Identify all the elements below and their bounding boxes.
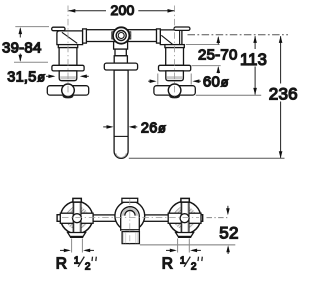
wire 60 dia extension line left xyxy=(157,74,159,85)
node left valve bonnet xyxy=(58,45,77,48)
node left handle hub xyxy=(73,214,82,223)
node center collar xyxy=(114,56,127,63)
svg-text:200: 200 xyxy=(110,2,134,18)
node 52 bottom arrow xyxy=(227,247,229,254)
wire 113 dimension line xyxy=(254,36,256,94)
wire left elbow miter diagonal xyxy=(62,32,77,43)
wire spout aerator joint line xyxy=(114,135,128,137)
node 26 dia right arrow xyxy=(131,126,138,128)
node left R half arrows xyxy=(60,249,69,251)
node 236 bottom arrowhead xyxy=(279,151,283,158)
node lower tube shading xyxy=(124,232,138,243)
wire spout bottom extension line xyxy=(129,157,285,159)
wire bottom center vertical centerline xyxy=(129,199,131,246)
svg-text:60ø: 60ø xyxy=(203,73,229,90)
wire right lever stem xyxy=(179,30,181,44)
wire pipe axis centerline right xyxy=(188,34,289,36)
wire dimension 200 line right segment xyxy=(138,10,174,12)
node left valve flange xyxy=(52,65,84,71)
node right valve elbow xyxy=(160,30,182,45)
wire 39-84 top extension line xyxy=(15,26,49,28)
wire 60 dia extension line right xyxy=(190,74,192,85)
node right handle vertical arm xyxy=(181,202,189,234)
node bottom spout lower tube xyxy=(122,232,139,244)
node right cross handle circle xyxy=(168,201,200,233)
wire left base bottom bold edge xyxy=(70,236,83,238)
node 236 top arrowhead xyxy=(279,36,283,43)
wire right base bottom bold edge xyxy=(178,236,191,238)
node center boss side tabs xyxy=(112,32,114,39)
wire dimension 200 line left segment xyxy=(69,10,175,12)
node right handle hub xyxy=(168,84,181,97)
wire 25-70 extension line upper xyxy=(186,44,220,46)
node right handle bar xyxy=(154,86,195,95)
node 39-84 up arrow xyxy=(19,29,21,61)
node right handle top cap xyxy=(181,198,189,202)
node bottom center body circle xyxy=(115,201,145,231)
node right neck shading xyxy=(167,76,183,79)
node left handle vertical arm xyxy=(73,202,81,234)
svg-text:236: 236 xyxy=(269,84,298,103)
node right handle horizontal arm xyxy=(168,213,201,223)
node bottom center top tab xyxy=(122,198,138,202)
svg-text:26ø: 26ø xyxy=(141,120,166,136)
wire left valve centerline xyxy=(67,6,69,98)
wire spout tip inner arc xyxy=(116,153,126,157)
node left elbow pipe collar xyxy=(83,29,87,43)
svg-text:31,5ø: 31,5ø xyxy=(7,70,45,86)
node left handle dome hatch shading xyxy=(66,206,89,229)
wire left R half extension lines xyxy=(71,239,73,253)
node 26 dia left arrow xyxy=(103,126,111,128)
node right handle lower arm xyxy=(169,95,180,98)
node bottom left stub cap xyxy=(57,215,62,222)
wire bottom spout collar lines xyxy=(121,229,140,231)
node 39-84 down arrow xyxy=(19,55,23,62)
node center boss outer circle xyxy=(113,27,129,43)
node dimension 200 left arrowhead xyxy=(68,9,75,13)
node 113 top arrowhead xyxy=(253,36,257,43)
wire 39-84 bottom extension line xyxy=(14,61,48,63)
node right handle base xyxy=(176,233,194,237)
node 113 bottom arrowhead xyxy=(253,88,257,95)
node left handle top cap xyxy=(73,198,81,202)
node right valve body xyxy=(166,48,184,66)
node left handle base xyxy=(68,233,86,237)
svg-text:R: R xyxy=(162,255,173,272)
svg-text:113: 113 xyxy=(240,51,267,69)
node 60 dia left arrow xyxy=(148,80,154,82)
node right arm shading xyxy=(181,203,183,233)
node center boss inner circle xyxy=(118,33,124,39)
node right R half arrows xyxy=(166,249,175,251)
node left valve elbow xyxy=(57,31,83,45)
node left handle horizontal arm xyxy=(60,213,93,223)
wire bend inner shading xyxy=(123,209,137,216)
node right elbow pipe collar xyxy=(157,29,161,43)
node left handle hub xyxy=(62,84,75,97)
node left arm shading xyxy=(73,203,75,233)
wire right valve centerline xyxy=(174,6,176,98)
node left valve body xyxy=(59,48,77,66)
node left handle bar xyxy=(47,86,88,95)
wire right elbow miter diagonal xyxy=(161,35,172,44)
node left cross handle circle xyxy=(60,201,92,233)
wire bottom view centerline inner segments xyxy=(62,217,199,219)
node center spout tube xyxy=(114,70,128,158)
node right lever cap xyxy=(174,27,190,30)
node bottom right stub cap xyxy=(198,215,203,222)
wire 236 dimension line xyxy=(280,36,282,158)
node bottom body bar xyxy=(60,215,200,221)
node center neck upper xyxy=(114,42,128,50)
wire horizontal supply pipe xyxy=(86,30,156,42)
node 60 dia right arrow xyxy=(195,80,201,82)
svg-text:25-70: 25-70 xyxy=(198,46,238,63)
node 25-70 upper arrow xyxy=(217,38,219,45)
svg-text:52: 52 xyxy=(219,223,238,242)
wire 25-70 extension line lower xyxy=(192,65,221,67)
node center neck lower xyxy=(115,49,126,56)
node right handle hub xyxy=(180,214,189,223)
node bottom spout bend tube xyxy=(121,207,140,231)
node right handle dome hatch shading xyxy=(173,206,196,229)
node 31,5 dia right arrow xyxy=(82,75,89,77)
node center flange xyxy=(104,63,137,70)
node right valve neck xyxy=(166,71,184,81)
node left handle lower arm xyxy=(63,95,74,98)
svg-text:2: 2 xyxy=(191,261,197,272)
wire handle bottom extension line xyxy=(196,94,261,96)
wire 52 bottom extension line xyxy=(140,244,235,246)
svg-text:39-84: 39-84 xyxy=(2,39,42,56)
svg-text:R: R xyxy=(56,255,67,272)
node 31,5 dia left arrow xyxy=(46,75,53,77)
node center boss middle circle xyxy=(116,31,126,41)
node bottom spout bend inner arc xyxy=(125,210,135,215)
node right valve flange xyxy=(159,65,191,71)
wire bottom view centerline xyxy=(207,217,229,219)
node left valve neck xyxy=(59,71,77,81)
node dimension 200 right arrowhead xyxy=(168,9,175,13)
node left neck shading xyxy=(60,76,76,79)
wire right R half extension lines xyxy=(177,239,179,253)
node left lever cap xyxy=(52,27,65,31)
node 52 top arrow xyxy=(227,206,229,214)
node 25-70 lower arrow xyxy=(217,68,219,74)
svg-text:2: 2 xyxy=(85,261,91,272)
node right valve bonnet xyxy=(165,45,184,48)
